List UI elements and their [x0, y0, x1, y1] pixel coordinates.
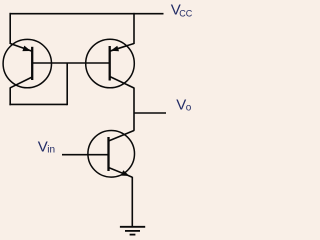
- svg-text:o: o: [186, 103, 192, 114]
- transistor Q1 (PNP, diode-connected) circle: [3, 39, 51, 87]
- transistor Q1 base bar: [31, 47, 33, 80]
- transistor Q3 base bar: [107, 137, 109, 171]
- ground: [120, 227, 145, 235]
- transistor Q2 (PNP) circle: [86, 39, 135, 88]
- wire: left vertical Q1 collector down: [9, 87, 11, 105]
- wire: Q2 emitter vertical to rail: [133, 13, 135, 44]
- wire: base rail Q1-Q2: [32, 62, 110, 64]
- wire: bottom horizontal diode-connect: [9, 103, 67, 105]
- transistor Q2 base bar: [109, 46, 111, 81]
- wire: left vertical from rail to Q1 emitter: [9, 13, 11, 44]
- svg-text:CC: CC: [179, 8, 192, 18]
- transistor Q1 emitter lead: [10, 44, 32, 52]
- transistor Q2 emitter lead: [110, 44, 134, 52]
- wire: Vo output lead: [134, 112, 166, 114]
- transistor Q3 emitter lead: [109, 168, 133, 178]
- wire: right vertical Q2 collector to Q3 collector: [133, 88, 135, 131]
- transistor Q1 emitter arrow: [22, 46, 31, 52]
- transistor Q3 emitter arrow: [121, 170, 130, 176]
- transistor Q3 (NPN) circle: [88, 131, 135, 178]
- wire: vertical up to base rail: [66, 63, 68, 105]
- transistor Q3 (NPN) collector lead: [109, 131, 135, 142]
- svg-text:in: in: [47, 145, 55, 156]
- transistor Q2 emitter arrow: [111, 46, 120, 52]
- transistor Q2 collector lead: [110, 77, 134, 89]
- transistor Q1 collector lead: [10, 77, 32, 88]
- wire: Vin base lead: [62, 154, 109, 156]
- wire: VCC top rail: [10, 13, 164, 15]
- wire: right vertical emitter to ground: [131, 177, 133, 227]
